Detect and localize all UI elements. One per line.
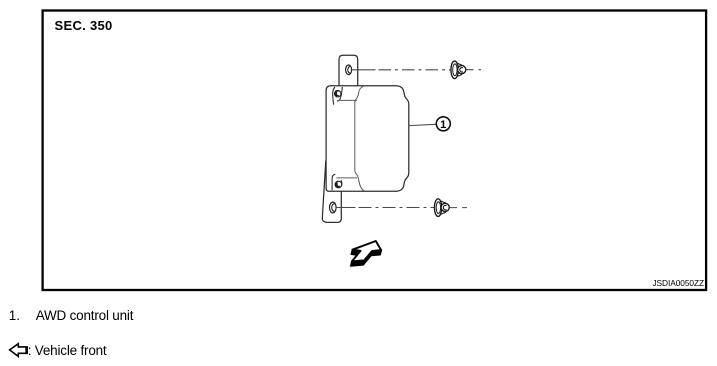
vehicle front 3D arrow: extrusion shadow — [351, 242, 381, 265]
bottom center line after nut — [450, 207, 467, 209]
AWD control unit body outline — [326, 86, 409, 192]
bottom pocket shelf line — [336, 177, 357, 179]
bottom pocket right hook — [340, 180, 343, 186]
top tab hole inner ring — [348, 67, 350, 73]
svg-text:JSDIA0050ZZ: JSDIA0050ZZ — [652, 278, 704, 288]
callout circle 1 — [436, 117, 450, 131]
top center line solid segment — [352, 69, 376, 71]
top pocket right hook — [337, 87, 342, 101]
svg-text:AWD control unit: AWD control unit — [36, 308, 134, 323]
bottom tab hole — [330, 202, 337, 213]
top flange bolt — [335, 91, 341, 97]
bottom center line solid segment — [336, 207, 355, 209]
svg-text:: Vehicle front: : Vehicle front — [28, 343, 107, 358]
bottom tab hole inner ring — [332, 204, 335, 211]
bottom pocket left edge — [332, 174, 335, 190]
bottom nut — [434, 199, 449, 217]
svg-text:1: 1 — [440, 119, 446, 131]
vehicle front icon arrow — [10, 344, 28, 357]
callout leader line — [409, 124, 437, 125]
bottom flange bolt — [335, 181, 342, 188]
svg-text:1.: 1. — [9, 308, 20, 323]
unit front face edge — [355, 86, 365, 191]
top pocket left edge — [333, 87, 335, 105]
bracket top tab — [339, 55, 358, 85]
top pocket shelf line — [337, 99, 357, 101]
top center line after nut — [467, 69, 482, 71]
svg-text:SEC. 350: SEC. 350 — [55, 18, 113, 33]
top tab hole — [346, 65, 352, 75]
frame border of figure — [43, 11, 707, 291]
top nut — [451, 61, 466, 79]
top center line dash-dot — [379, 69, 451, 71]
bracket bottom tab — [322, 161, 341, 223]
bottom center line dash-dot — [359, 207, 435, 209]
vehicle front 3D arrow: top face — [352, 241, 381, 261]
